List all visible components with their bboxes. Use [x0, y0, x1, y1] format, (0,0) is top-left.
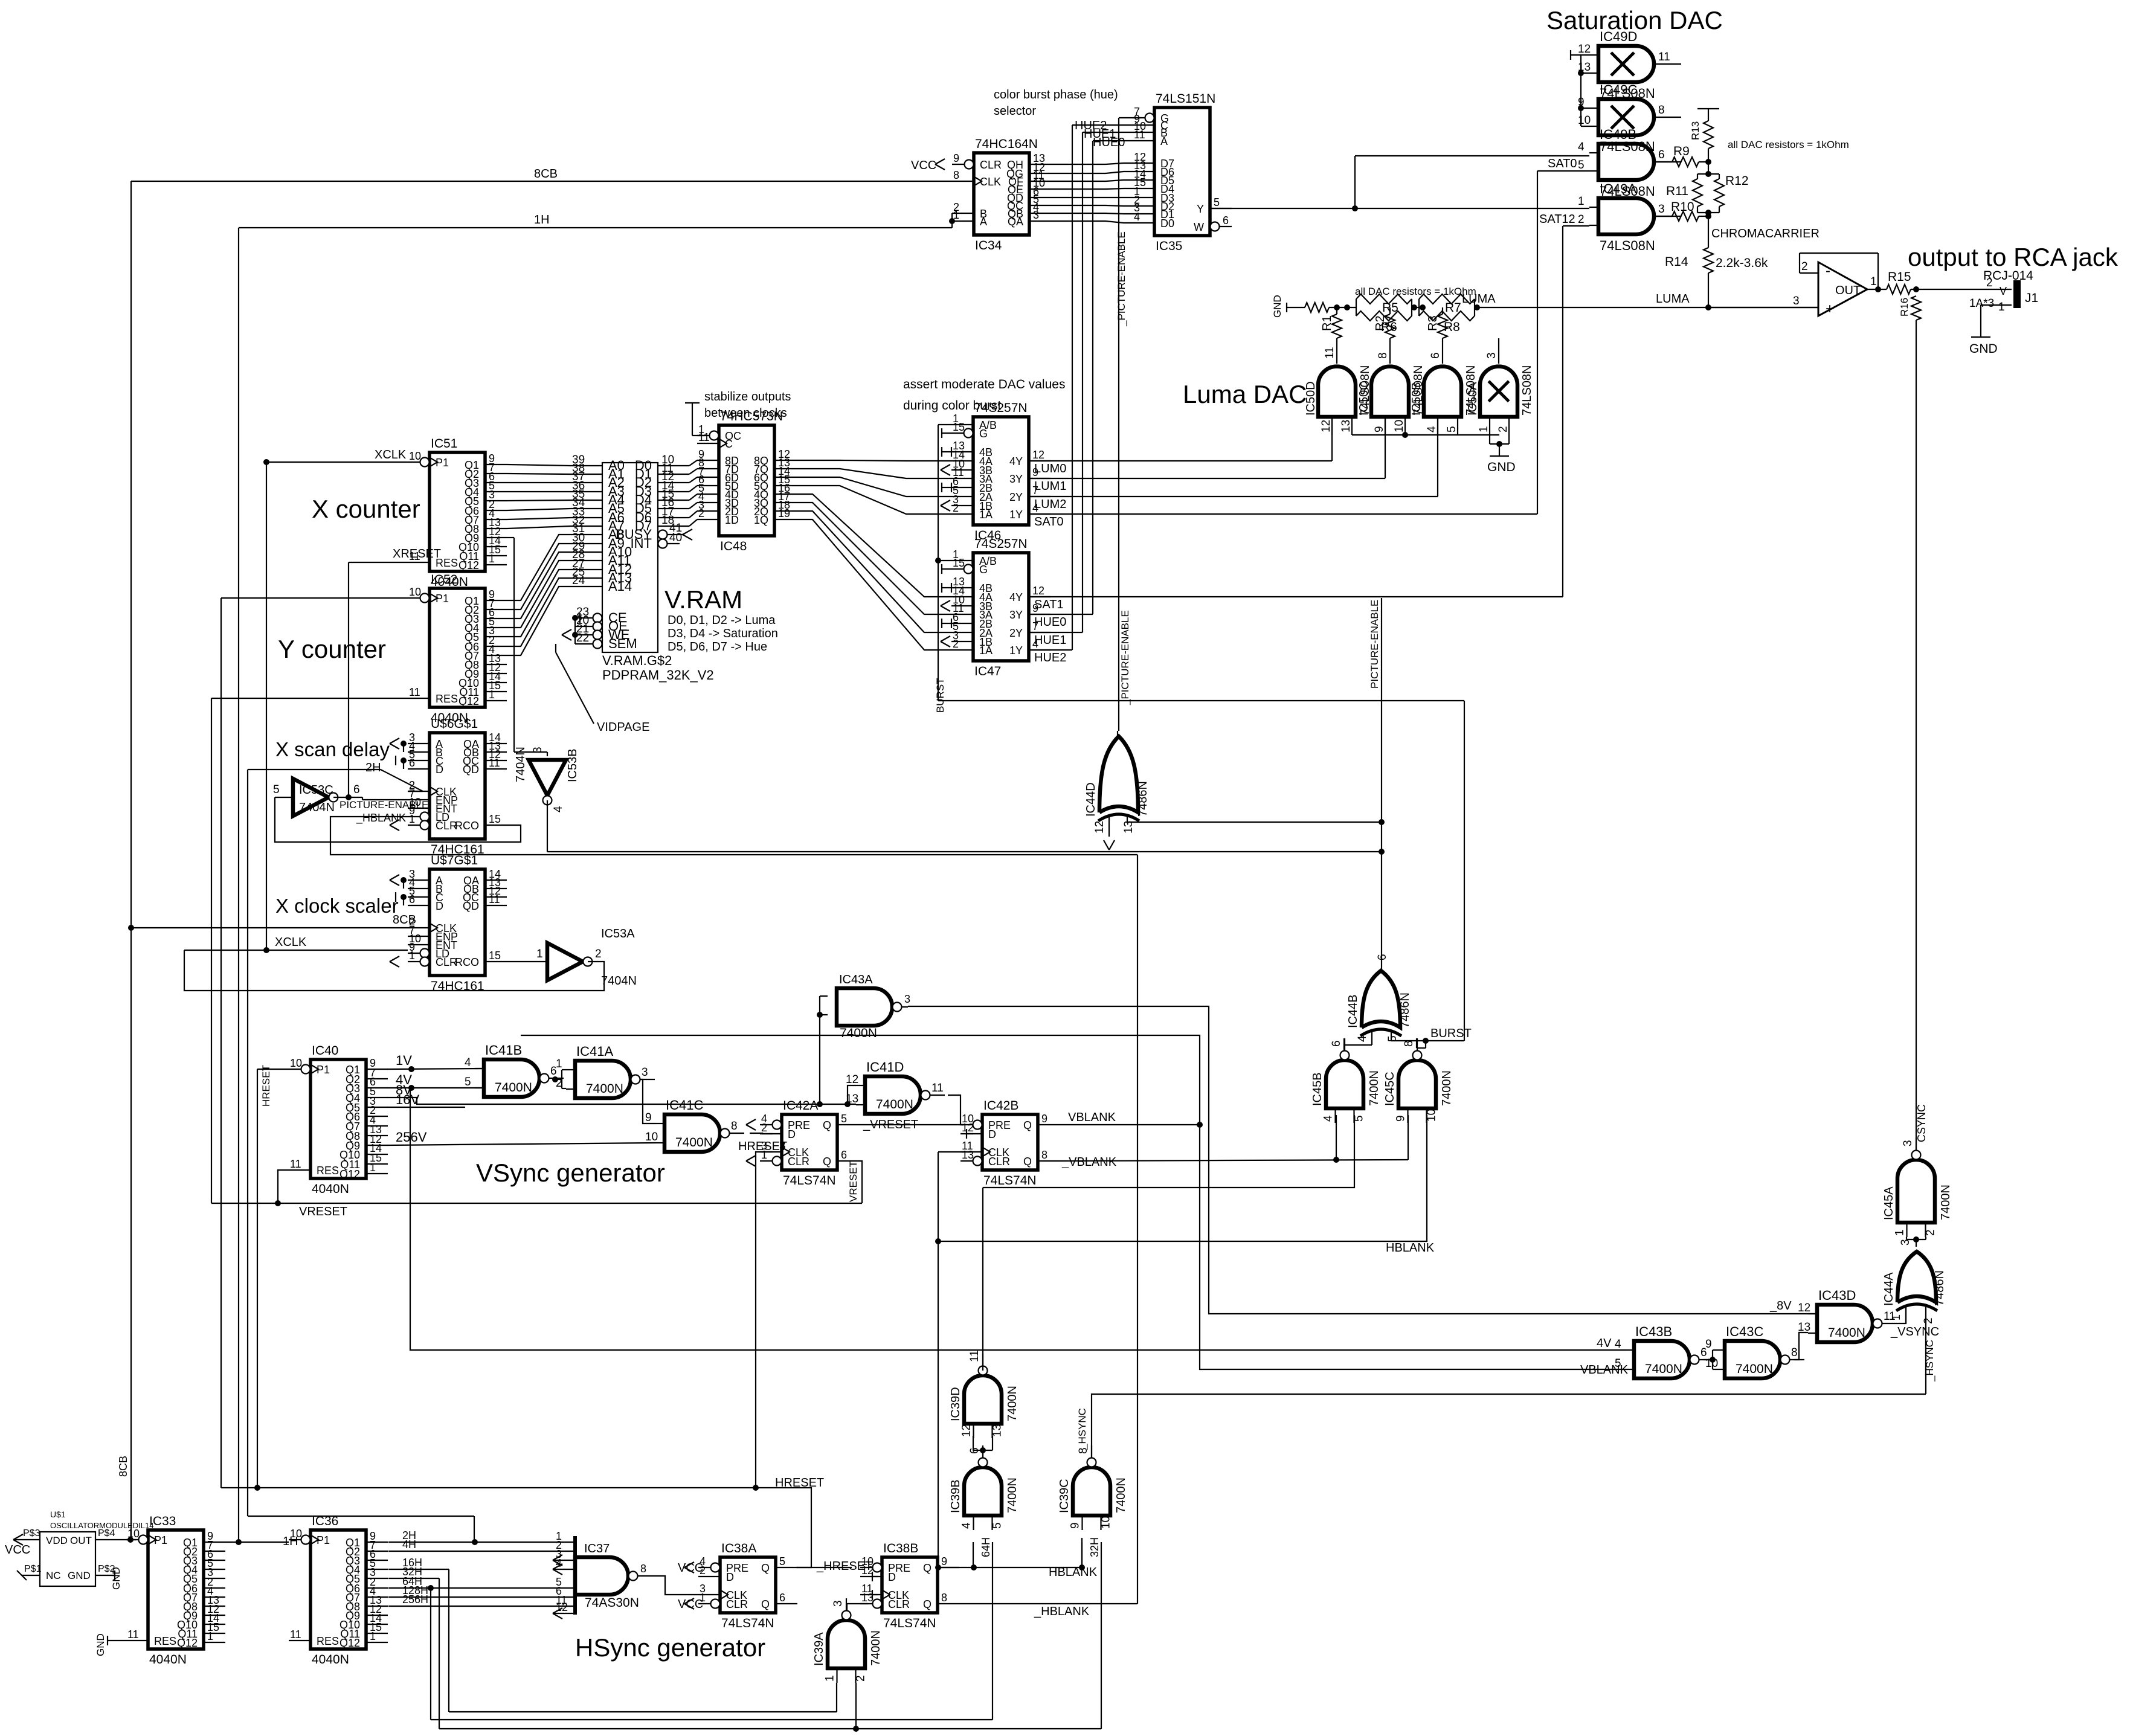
svg-text:40: 40 [669, 532, 682, 544]
svg-text:2: 2 [953, 502, 959, 514]
svg-text:VCC: VCC [911, 159, 936, 172]
svg-text:VDD: VDD [46, 1535, 68, 1546]
svg-text:9: 9 [1395, 1115, 1408, 1122]
svg-text:IC49D: IC49D [1600, 29, 1637, 44]
svg-text:IC53C: IC53C [299, 783, 333, 797]
svg-text:D: D [888, 1571, 896, 1583]
svg-text:6: 6 [409, 757, 415, 769]
svg-text:CLK: CLK [980, 176, 1001, 188]
svg-text:12: 12 [960, 1424, 973, 1437]
svg-text:D3, D4 -> Saturation: D3, D4 -> Saturation [668, 627, 778, 640]
svg-text:assert moderate DAC values: assert moderate DAC values [903, 378, 1065, 391]
svg-text:IC49B: IC49B [1600, 127, 1636, 142]
svg-text:IC39D: IC39D [949, 1387, 962, 1421]
svg-text:RES: RES [154, 1635, 176, 1647]
svg-text:Q12: Q12 [458, 695, 479, 707]
svg-text:all DAC resistors = 1kOhm: all DAC resistors = 1kOhm [1355, 286, 1476, 297]
svg-text:Q: Q [761, 1598, 770, 1610]
svg-text:15: 15 [489, 813, 501, 825]
svg-text:6: 6 [353, 783, 360, 796]
svg-text:74LS151N: 74LS151N [1156, 92, 1215, 106]
svg-text:2: 2 [1986, 277, 1993, 289]
svg-text:2: 2 [1578, 213, 1585, 226]
svg-text:VRESET: VRESET [848, 1161, 859, 1202]
svg-text:32H: 32H [1089, 1537, 1101, 1557]
svg-text:P1: P1 [317, 1064, 330, 1076]
svg-text:7400N: 7400N [1440, 1070, 1453, 1106]
svg-text:IC47: IC47 [974, 664, 1001, 678]
svg-text:3Y: 3Y [1009, 609, 1023, 621]
svg-text:2Y: 2Y [1009, 491, 1023, 503]
svg-text:9: 9 [941, 1555, 947, 1567]
svg-text:8CB: 8CB [393, 913, 416, 927]
svg-text:R1: R1 [1321, 315, 1334, 331]
svg-text:+: + [1826, 301, 1834, 317]
svg-text:IC43D: IC43D [1818, 1288, 1856, 1303]
svg-text:HSync generator: HSync generator [575, 1633, 765, 1662]
svg-text:8: 8 [640, 1563, 646, 1575]
svg-text:R3: R3 [1426, 315, 1440, 331]
svg-text:IC43B: IC43B [1635, 1324, 1672, 1339]
svg-text:-: - [1826, 263, 1830, 279]
svg-text:7404N: 7404N [514, 747, 527, 782]
svg-text:V.RAM.G$2: V.RAM.G$2 [602, 653, 672, 668]
svg-text:2: 2 [953, 638, 959, 650]
svg-text:IC44D: IC44D [1084, 782, 1098, 817]
svg-text:_HBLANK: _HBLANK [356, 812, 406, 825]
svg-text:_VBLANK: _VBLANK [1061, 1156, 1117, 1169]
svg-text:13: 13 [991, 1424, 1004, 1437]
svg-text:color burst phase (hue): color burst phase (hue) [994, 88, 1118, 101]
svg-text:7400N: 7400N [495, 1081, 532, 1095]
svg-text:IC45A: IC45A [1882, 1186, 1896, 1220]
svg-text:74S257N: 74S257N [974, 537, 1028, 551]
svg-text:D: D [988, 1128, 996, 1140]
svg-text:V: V [2000, 285, 2007, 297]
svg-text:XCLK: XCLK [275, 936, 307, 949]
svg-text:C: C [725, 438, 733, 450]
svg-text:12: 12 [556, 1601, 568, 1613]
svg-text:CLR: CLR [436, 956, 457, 968]
svg-text:1: 1 [370, 1630, 376, 1642]
svg-text:X counter: X counter [312, 495, 420, 523]
svg-text:7400N: 7400N [675, 1136, 713, 1149]
svg-text:3: 3 [779, 1140, 786, 1153]
svg-text:IC44B: IC44B [1347, 994, 1360, 1028]
svg-text:4V: 4V [1597, 1337, 1612, 1350]
svg-text:_PICTURE-ENABLE: _PICTURE-ENABLE [1119, 610, 1131, 706]
svg-text:Q: Q [761, 1562, 770, 1574]
svg-text:CLR: CLR [888, 1598, 910, 1610]
svg-text:1: 1 [489, 553, 495, 565]
svg-text:RCO: RCO [455, 820, 479, 832]
svg-text:R12: R12 [1725, 174, 1749, 188]
svg-text:1: 1 [556, 1058, 562, 1070]
svg-text:CLR: CLR [988, 1156, 1010, 1168]
svg-text:IC39C: IC39C [1058, 1479, 1071, 1513]
svg-text:74S257N: 74S257N [974, 401, 1028, 415]
svg-text:IC50A: IC50A [1466, 382, 1479, 416]
svg-text:IC50D: IC50D [1304, 381, 1318, 416]
svg-text:IC40: IC40 [312, 1044, 338, 1058]
svg-text:12: 12 [846, 1073, 858, 1086]
svg-text:8: 8 [941, 1592, 947, 1604]
svg-text:12: 12 [1798, 1302, 1810, 1314]
svg-text:Q12: Q12 [458, 559, 479, 571]
svg-text:5: 5 [1214, 196, 1220, 208]
svg-text:9: 9 [645, 1111, 652, 1124]
svg-text:Q: Q [1023, 1156, 1032, 1168]
svg-text:4: 4 [1356, 1035, 1369, 1042]
svg-text:Q12: Q12 [339, 1637, 360, 1649]
svg-text:CSYNC: CSYNC [1916, 1104, 1928, 1142]
svg-text:HBLANK: HBLANK [1386, 1241, 1435, 1255]
svg-text:2H: 2H [365, 761, 381, 774]
svg-text:12: 12 [1032, 585, 1044, 597]
svg-text:IC41A: IC41A [576, 1044, 613, 1059]
svg-text:64H: 64H [980, 1537, 992, 1557]
svg-text:PICTURE-ENABLE: PICTURE-ENABLE [339, 799, 428, 811]
svg-text:IC52: IC52 [431, 573, 457, 587]
svg-text:256V: 256V [396, 1130, 427, 1145]
svg-text:QA: QA [1008, 216, 1023, 228]
svg-text:3Y: 3Y [1009, 473, 1023, 485]
svg-text:1: 1 [1478, 426, 1490, 432]
svg-text:QD: QD [463, 764, 479, 776]
svg-text:IC53B: IC53B [566, 748, 579, 782]
svg-text:IC38A: IC38A [721, 1542, 756, 1555]
svg-text:GND: GND [1272, 295, 1283, 318]
svg-text:Y counter: Y counter [278, 635, 386, 663]
svg-text:HBLANK: HBLANK [1049, 1566, 1098, 1579]
svg-text:R14: R14 [1665, 255, 1688, 269]
svg-text:4040N: 4040N [312, 1653, 349, 1667]
svg-text:5: 5 [465, 1076, 471, 1088]
svg-text:IC43A: IC43A [839, 973, 873, 986]
svg-text:74LS08N: 74LS08N [1600, 238, 1655, 253]
svg-text:13: 13 [1798, 1321, 1810, 1334]
svg-text:SAT0: SAT0 [1548, 157, 1577, 170]
svg-text:R16: R16 [1899, 298, 1910, 317]
svg-text:VIDPAGE: VIDPAGE [597, 721, 649, 734]
svg-text:11: 11 [127, 1628, 139, 1641]
svg-text:3: 3 [904, 993, 910, 1005]
svg-text:IC35: IC35 [1156, 239, 1182, 253]
svg-text:4: 4 [1322, 1115, 1335, 1122]
svg-text:D: D [436, 900, 443, 912]
svg-text:4: 4 [1615, 1338, 1621, 1351]
svg-text:IC41C: IC41C [666, 1098, 703, 1113]
svg-text:16V: 16V [396, 1092, 419, 1107]
svg-text:R6: R6 [1381, 320, 1397, 334]
svg-text:5: 5 [841, 1113, 847, 1125]
svg-text:1: 1 [207, 1630, 213, 1642]
svg-text:VRESET: VRESET [299, 1205, 347, 1218]
svg-text:IC51: IC51 [431, 437, 457, 451]
svg-text:13: 13 [846, 1093, 858, 1105]
svg-text:74LS08N: 74LS08N [1520, 365, 1534, 416]
svg-text:2: 2 [1801, 260, 1808, 273]
svg-text:_8V: _8V [1769, 1299, 1792, 1313]
svg-text:CHROMACARRIER: CHROMACARRIER [1711, 227, 1820, 240]
svg-text:8: 8 [1791, 1346, 1798, 1359]
svg-text:1D: 1D [725, 514, 739, 526]
svg-text:R13: R13 [1690, 121, 1701, 140]
svg-text:5: 5 [991, 1522, 1004, 1529]
svg-text:GND: GND [95, 1633, 106, 1656]
svg-text:10: 10 [127, 1528, 140, 1540]
svg-text:IC45C: IC45C [1383, 1072, 1397, 1106]
svg-text:RES: RES [317, 1635, 339, 1647]
svg-text:11: 11 [931, 1082, 944, 1095]
svg-text:SEM: SEM [608, 636, 637, 651]
svg-text:7400N: 7400N [1006, 1477, 1019, 1513]
svg-text:HUE1: HUE1 [1034, 634, 1066, 647]
svg-text:1: 1 [409, 950, 415, 962]
svg-text:R10: R10 [1671, 200, 1694, 214]
svg-text:A14: A14 [608, 579, 632, 594]
svg-text:2: 2 [1497, 426, 1510, 432]
svg-text:7400N: 7400N [1828, 1326, 1865, 1340]
svg-text:OUT: OUT [1835, 284, 1861, 297]
svg-text:9: 9 [1069, 1522, 1082, 1529]
svg-text:7400N: 7400N [586, 1082, 623, 1096]
svg-text:12: 12 [1093, 821, 1106, 834]
svg-text:6: 6 [1330, 1040, 1343, 1047]
svg-text:D: D [788, 1128, 796, 1140]
svg-text:4: 4 [552, 806, 565, 812]
svg-text:15: 15 [489, 950, 501, 962]
svg-text:IC39A: IC39A [812, 1632, 826, 1666]
svg-text:2: 2 [595, 948, 602, 960]
svg-text:9: 9 [953, 152, 959, 164]
svg-text:74LS74N: 74LS74N [983, 1174, 1037, 1188]
svg-text:V.RAM: V.RAM [664, 585, 742, 614]
svg-text:A: A [980, 216, 987, 228]
svg-text:_HBLANK: _HBLANK [1034, 1605, 1090, 1618]
svg-text:7486N: 7486N [1398, 992, 1412, 1028]
svg-text:R15: R15 [1888, 270, 1911, 284]
svg-text:GND: GND [68, 1570, 91, 1581]
svg-text:P1: P1 [436, 593, 449, 605]
svg-text:13: 13 [1340, 420, 1353, 432]
svg-text:2Y: 2Y [1009, 627, 1023, 639]
svg-text:1: 1 [489, 689, 495, 701]
svg-text:1H: 1H [534, 213, 550, 227]
svg-text:IC49A: IC49A [1600, 181, 1636, 196]
svg-text:3: 3 [1485, 352, 1498, 359]
svg-text:U$1: U$1 [50, 1509, 66, 1519]
svg-text:IC33: IC33 [149, 1514, 176, 1528]
svg-text:11: 11 [1134, 129, 1145, 141]
svg-text:3: 3 [1033, 209, 1039, 221]
svg-text:IC34: IC34 [975, 239, 1002, 252]
svg-text:LUM2: LUM2 [1034, 498, 1066, 511]
svg-text:1Q: 1Q [754, 514, 768, 526]
svg-text:D5, D6, D7 -> Hue: D5, D6, D7 -> Hue [668, 640, 767, 654]
svg-text:11: 11 [290, 1158, 301, 1170]
svg-text:7400N: 7400N [1736, 1362, 1773, 1376]
svg-text:74HC573N: 74HC573N [720, 410, 783, 423]
svg-text:4: 4 [1578, 141, 1585, 153]
svg-text:INT: INT [631, 536, 652, 551]
svg-text:IC38B: IC38B [883, 1542, 918, 1555]
svg-text:7400N: 7400N [840, 1026, 877, 1040]
svg-text:CLR: CLR [726, 1598, 748, 1610]
svg-text:P1: P1 [436, 457, 449, 469]
svg-text:1: 1 [536, 948, 543, 960]
svg-text:LUMA: LUMA [1656, 292, 1690, 306]
svg-text:IC50B: IC50B [1410, 382, 1423, 416]
svg-text:8: 8 [1377, 352, 1389, 359]
svg-text:IC50C: IC50C [1357, 381, 1371, 416]
svg-text:8CB: 8CB [534, 167, 558, 181]
svg-text:8CB: 8CB [117, 1456, 129, 1477]
svg-text:HUE0: HUE0 [1093, 136, 1125, 149]
svg-text:11: 11 [1658, 51, 1670, 63]
svg-text:CLR: CLR [788, 1156, 809, 1168]
svg-text:7404N: 7404N [601, 974, 637, 988]
svg-text:9: 9 [1373, 426, 1386, 432]
svg-text:IC53A: IC53A [601, 927, 635, 940]
svg-text:IC45B: IC45B [1311, 1072, 1324, 1106]
svg-text:4: 4 [960, 1522, 973, 1529]
svg-text:2: 2 [761, 1122, 767, 1134]
svg-text:6: 6 [1658, 149, 1665, 161]
svg-text:U$7G$1: U$7G$1 [431, 854, 478, 867]
svg-text:256H: 256H [402, 1593, 428, 1606]
svg-text:R11: R11 [1666, 184, 1688, 198]
svg-text:8: 8 [1403, 1040, 1415, 1047]
svg-text:IC43C: IC43C [1726, 1324, 1763, 1339]
svg-text:GND: GND [111, 1567, 122, 1590]
svg-text:2: 2 [1922, 1317, 1935, 1324]
svg-text:1A*3: 1A*3 [1969, 297, 1994, 310]
svg-text:D0, D1, D2 -> Luma: D0, D1, D2 -> Luma [668, 614, 776, 627]
svg-text:19: 19 [778, 507, 790, 519]
svg-text:X clock scaler: X clock scaler [275, 895, 399, 917]
svg-text:R9: R9 [1673, 144, 1690, 158]
svg-text:P$4: P$4 [98, 1528, 115, 1538]
svg-text:1V: 1V [396, 1053, 412, 1068]
svg-text:1: 1 [1870, 275, 1877, 288]
svg-text:1: 1 [1894, 1229, 1906, 1236]
svg-text:R8: R8 [1444, 320, 1460, 334]
svg-text:1Y: 1Y [1009, 645, 1023, 657]
svg-text:8: 8 [1041, 1149, 1047, 1161]
svg-text:7404N: 7404N [299, 801, 335, 814]
svg-text:22: 22 [576, 632, 589, 645]
svg-text:4: 4 [1134, 211, 1140, 223]
svg-text:2: 2 [698, 507, 704, 519]
svg-text:4Y: 4Y [1009, 455, 1023, 468]
svg-text:3: 3 [532, 747, 544, 753]
svg-text:XRESET: XRESET [393, 547, 441, 561]
svg-text:5: 5 [1578, 159, 1585, 172]
svg-text:13: 13 [962, 1149, 974, 1161]
svg-text:LUM1: LUM1 [1034, 480, 1066, 493]
svg-text:SAT1: SAT1 [1034, 598, 1064, 611]
svg-text:10: 10 [290, 1057, 302, 1069]
svg-text:R7: R7 [1445, 301, 1461, 315]
svg-text:7400N: 7400N [1368, 1070, 1381, 1106]
svg-text:10: 10 [409, 450, 421, 462]
svg-text:7486N: 7486N [1136, 781, 1150, 817]
svg-text:4040N: 4040N [149, 1653, 187, 1667]
svg-text:GND: GND [1969, 342, 1998, 356]
svg-text:Y: Y [1197, 203, 1204, 215]
svg-text:7400N: 7400N [1006, 1386, 1019, 1421]
svg-text:6: 6 [841, 1149, 847, 1161]
svg-text:2.2k-3.6k: 2.2k-3.6k [1716, 256, 1768, 270]
svg-text:RES: RES [436, 693, 458, 705]
svg-text:7400N: 7400N [876, 1098, 913, 1111]
svg-text:1: 1 [370, 1162, 376, 1174]
svg-text:_HSYNC: _HSYNC [1076, 1408, 1088, 1450]
svg-text:1A: 1A [979, 509, 993, 521]
svg-text:P$1: P$1 [24, 1564, 42, 1574]
svg-text:IC44A: IC44A [1882, 1272, 1896, 1306]
svg-text:BURST: BURST [1430, 1027, 1472, 1040]
svg-text:Q: Q [823, 1119, 831, 1131]
svg-text:Q: Q [923, 1562, 931, 1574]
svg-text:11: 11 [290, 1628, 301, 1641]
svg-text:RES: RES [317, 1165, 339, 1177]
svg-text:IC36: IC36 [312, 1514, 338, 1528]
svg-text:74AS30N: 74AS30N [585, 1596, 639, 1610]
svg-text:P$3: P$3 [23, 1528, 40, 1538]
svg-text:5: 5 [273, 783, 280, 796]
svg-text:_HRESET: _HRESET [816, 1560, 872, 1573]
svg-text:74HC164N: 74HC164N [975, 137, 1038, 151]
svg-text:BURST: BURST [935, 678, 946, 713]
svg-text:A: A [1160, 135, 1168, 147]
svg-text:D: D [726, 1571, 734, 1583]
svg-text:IC42B: IC42B [983, 1099, 1018, 1113]
svg-text:74LS74N: 74LS74N [721, 1616, 774, 1630]
svg-text:Q12: Q12 [177, 1637, 198, 1649]
svg-text:8: 8 [1658, 104, 1665, 117]
svg-text:12: 12 [962, 1122, 974, 1134]
svg-text:10: 10 [645, 1131, 658, 1143]
svg-text:10: 10 [1393, 420, 1406, 432]
svg-text:IC41B: IC41B [485, 1043, 522, 1058]
svg-text:VSync generator: VSync generator [476, 1159, 665, 1187]
svg-text:X scan delay: X scan delay [275, 738, 390, 760]
svg-text:11: 11 [409, 686, 420, 698]
svg-text:D0: D0 [1160, 217, 1174, 230]
svg-text:stabilize outputs: stabilize outputs [704, 390, 791, 403]
svg-text:VBLANK: VBLANK [1068, 1111, 1116, 1124]
svg-text:7400N: 7400N [1115, 1477, 1128, 1513]
svg-text:OUT: OUT [70, 1535, 92, 1546]
svg-text:CLR: CLR [436, 820, 457, 832]
svg-text:PICTURE-ENABLE: PICTURE-ENABLE [1369, 600, 1380, 689]
svg-text:7400N: 7400N [1645, 1362, 1682, 1376]
svg-text:6: 6 [1429, 352, 1442, 359]
svg-text:all DAC resistors = 1kOhm: all DAC resistors = 1kOhm [1728, 139, 1849, 150]
svg-text:15: 15 [953, 557, 965, 569]
svg-text:10: 10 [1100, 1516, 1113, 1529]
svg-text:U$6G$1: U$6G$1 [431, 717, 478, 731]
svg-text:PDPRAM_32K_V2: PDPRAM_32K_V2 [602, 667, 714, 683]
svg-text:P1: P1 [154, 1534, 167, 1546]
svg-text:_HSYNC: _HSYNC [1924, 1340, 1935, 1382]
svg-text:5: 5 [1446, 426, 1458, 432]
svg-text:G: G [979, 564, 988, 576]
svg-text:VCC: VCC [5, 1543, 30, 1557]
svg-text:IC48: IC48 [720, 539, 747, 553]
